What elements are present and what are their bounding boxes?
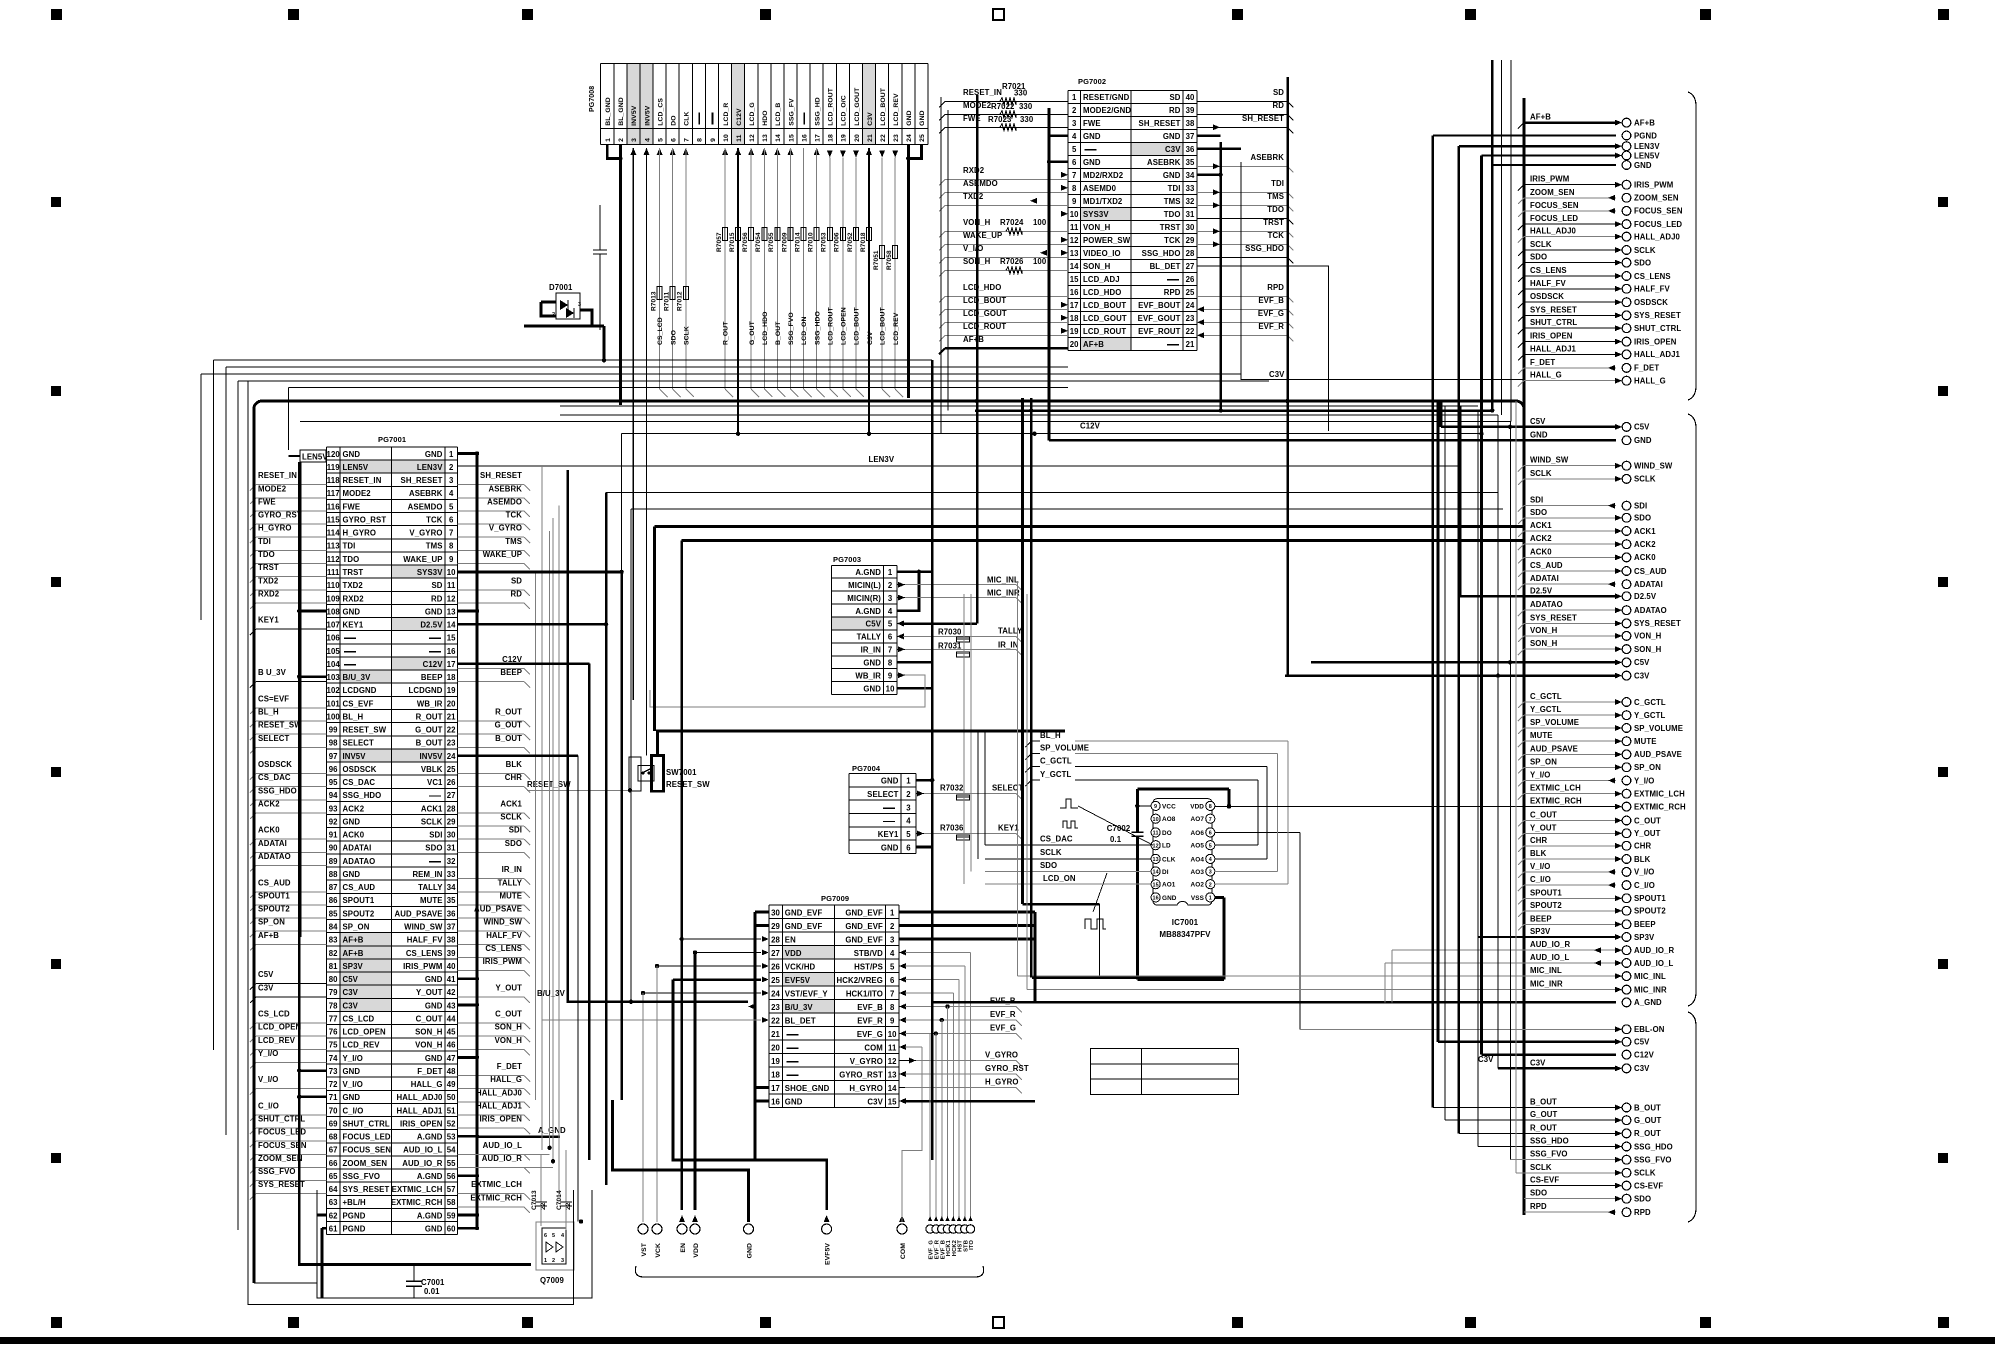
svg-text:RD: RD [431,594,443,603]
svg-text:SPOUT1: SPOUT1 [343,896,375,905]
svg-text:ZOOM_SEN: ZOOM_SEN [258,1154,303,1163]
svg-text:WIND_SW: WIND_SW [1530,456,1569,465]
svg-text:1: 1 [1209,896,1212,902]
svg-text:C3V: C3V [1634,671,1650,680]
svg-text:AO5: AO5 [1191,843,1205,850]
svg-text:R7058: R7058 [886,250,893,270]
svg-text:EVF_G: EVF_G [990,1024,1016,1033]
terminal EVF_B [940,1216,944,1221]
svg-text:FOCUS_LED: FOCUS_LED [1634,220,1682,229]
resistor R7018 [867,228,872,241]
svg-text:TMS: TMS [505,537,522,546]
svg-text:BL_GND: BL_GND [618,97,625,126]
svg-text:35: 35 [1186,158,1195,167]
svg-text:AO2: AO2 [1191,882,1205,889]
svg-text:LCD_ROUT: LCD_ROUT [1083,327,1126,336]
svg-text:AO4: AO4 [1191,856,1205,863]
svg-text:9: 9 [710,138,717,142]
terminal COM [899,1215,905,1222]
wire: PG7002 GND right vertical [1219,142,1222,411]
svg-text:HALF_FV: HALF_FV [1530,279,1566,288]
svg-text:SHOE_GND: SHOE_GND [785,1084,830,1093]
svg-text:9: 9 [888,672,893,681]
svg-text:VON_H: VON_H [415,1041,443,1050]
svg-text:R7054: R7054 [755,232,762,252]
svg-text:TMS: TMS [1267,192,1284,201]
svg-text:16: 16 [1070,288,1079,297]
svg-text:GND: GND [863,659,881,668]
svg-text:51: 51 [447,1106,456,1115]
svg-text:61: 61 [329,1225,338,1234]
svg-text:SP_ON: SP_ON [1634,763,1661,772]
svg-text:SP3V: SP3V [343,962,364,971]
svg-text:13: 13 [1070,249,1079,258]
svg-text:C3V: C3V [867,1098,883,1107]
svg-text:30: 30 [771,909,780,918]
junction dots on buses [930,399,934,403]
svg-text:BL_DET: BL_DET [785,1017,816,1026]
svg-text:54: 54 [447,1146,456,1155]
svg-text:SSG_HDO: SSG_HDO [1634,1142,1673,1151]
svg-text:VDD: VDD [785,949,802,958]
svg-text:TCK: TCK [1164,236,1181,245]
svg-text:6: 6 [1209,831,1212,837]
svg-text:11: 11 [888,1044,897,1053]
svg-text:RXD2: RXD2 [963,166,985,175]
svg-text:115: 115 [327,516,340,525]
svg-text:SP_VOLUME: SP_VOLUME [1530,718,1579,727]
svg-text:ADATAO: ADATAO [258,852,291,861]
svg-text:87: 87 [329,883,338,892]
svg-text:10: 10 [447,568,456,577]
svg-text:VDD: VDD [1190,803,1204,810]
wire: GND thick feeder [1048,108,1051,440]
svg-text:DO: DO [1162,830,1172,837]
svg-text:SON_H: SON_H [415,1028,443,1037]
svg-text:3: 3 [561,1258,564,1264]
svg-text:SCLK: SCLK [421,818,443,827]
svg-text:HALF_FV: HALF_FV [1634,285,1670,294]
transistor Q7009 [542,1228,566,1264]
svg-text:84: 84 [329,923,338,932]
svg-text:53: 53 [447,1133,456,1142]
svg-text:EVF_GOUT: EVF_GOUT [1138,314,1181,323]
svg-text:3: 3 [449,476,454,485]
svg-text:LCD_HDO: LCD_HDO [963,283,1001,292]
svg-text:74: 74 [329,1054,338,1063]
svg-text:PGND: PGND [1634,131,1657,140]
svg-text:8: 8 [1072,184,1077,193]
node C12V [1481,1053,1616,1055]
svg-text:PG7008: PG7008 [589,86,596,112]
svg-text:ACK0: ACK0 [1634,553,1656,562]
svg-text:16: 16 [771,1098,780,1107]
svg-text:SCLK: SCLK [1530,1163,1552,1172]
svg-text:LCD_REV: LCD_REV [893,312,900,345]
svg-text:14: 14 [775,134,782,142]
svg-text:C12V: C12V [736,108,743,126]
svg-text:TMS: TMS [1164,197,1181,206]
svg-text:SCLK: SCLK [1530,240,1552,249]
svg-text:SYS_RESET: SYS_RESET [1530,305,1577,314]
svg-text:LCD_BOUT: LCD_BOUT [1083,301,1126,310]
svg-text:AO6: AO6 [1191,830,1205,837]
svg-text:12: 12 [888,1057,897,1066]
svg-text:B/U_3V: B/U_3V [785,1003,814,1012]
svg-text:CS_LCD: CS_LCD [343,1014,375,1023]
table (blank legend) [1091,1049,1239,1095]
svg-text:MIC_INL: MIC_INL [1634,972,1666,981]
svg-text:RESET_IN: RESET_IN [963,88,1002,97]
svg-text:35: 35 [447,896,456,905]
svg-text:C5V: C5V [1530,417,1546,426]
svg-text:SP_VOLUME: SP_VOLUME [1634,724,1683,733]
node C5V [1438,1041,1616,1043]
svg-text:119: 119 [327,463,340,472]
svg-text:WIND_SW: WIND_SW [484,918,523,927]
svg-text:30: 30 [1186,223,1195,232]
svg-text:HALL_ADJ0: HALL_ADJ0 [1634,232,1681,241]
svg-text:15: 15 [788,134,795,142]
svg-text:V_GYRO: V_GYRO [489,524,522,533]
svg-text:SELECT: SELECT [867,790,898,799]
svg-text:50: 50 [447,1093,456,1102]
svg-text:64: 64 [329,1185,338,1194]
svg-text:HCK1/ITO: HCK1/ITO [846,990,883,999]
svg-text:R7015: R7015 [729,232,736,252]
terminal STB [963,1216,967,1221]
svg-text:R_OUT: R_OUT [723,321,730,345]
svg-text:F_DET: F_DET [417,1067,442,1076]
svg-text:BL_DET: BL_DET [1150,262,1181,271]
wire: PG7002 right flag bus [1286,77,1289,676]
svg-text:HALL_ADJ0: HALL_ADJ0 [1530,227,1577,236]
svg-text:A.GND: A.GND [417,1133,443,1142]
svg-text:2: 2 [888,581,893,590]
svg-text:100: 100 [1033,257,1047,266]
svg-text:LEN3V: LEN3V [417,463,443,472]
svg-text:AO1: AO1 [1162,882,1176,889]
svg-text:C12V: C12V [1634,1050,1655,1059]
svg-text:MICIN(R): MICIN(R) [847,594,881,603]
svg-text:V_I/O: V_I/O [1530,862,1550,871]
svg-text:PG7009: PG7009 [821,894,849,903]
node A_GND [932,1001,1616,1003]
svg-text:C_I/O: C_I/O [343,1106,364,1115]
svg-text:46: 46 [447,1041,456,1050]
svg-text:SPOUT2: SPOUT2 [343,909,375,918]
svg-text:SP3V: SP3V [1634,933,1655,942]
svg-text:7: 7 [449,529,453,538]
svg-text:16: 16 [801,134,808,142]
svg-text:CS_DAC: CS_DAC [1040,835,1073,844]
svg-text:3: 3 [1072,119,1077,128]
svg-text:5: 5 [552,1233,555,1239]
svg-text:V_I/O: V_I/O [963,244,983,253]
svg-text:AUD_IO_L: AUD_IO_L [1530,953,1569,962]
svg-text:49: 49 [447,1080,456,1089]
wire: top-left horizontal bus [214,359,933,361]
svg-text:AF+B: AF+B [343,949,364,958]
svg-text:41: 41 [447,975,456,984]
svg-text:R7055: R7055 [768,232,775,252]
svg-text:SPOUT2: SPOUT2 [1634,907,1666,916]
svg-text:14: 14 [1070,262,1079,271]
node EBL-ON [1300,1028,1616,1030]
svg-text:3: 3 [1209,870,1212,876]
svg-text:44: 44 [447,1014,456,1023]
svg-text:97: 97 [329,752,338,761]
svg-text:R_OUT: R_OUT [495,708,522,717]
svg-text:11: 11 [1070,223,1079,232]
svg-text:96: 96 [329,765,338,774]
waveform clock glyph [1063,821,1078,828]
svg-text:C_GCTL: C_GCTL [1040,756,1072,765]
wire: nested right verticals [1501,60,1503,415]
svg-text:AUD_IO_R: AUD_IO_R [1634,946,1674,955]
svg-text:A_GND: A_GND [1634,998,1662,1007]
svg-text:38: 38 [447,936,456,945]
svg-text:V_GYRO: V_GYRO [850,1057,883,1066]
svg-text:VC1: VC1 [427,778,443,787]
svg-text:SCLK: SCLK [1634,1169,1656,1178]
svg-text:FOCUS_SEN: FOCUS_SEN [343,1146,392,1155]
svg-text:C_I/O: C_I/O [1530,875,1551,884]
svg-text:27: 27 [771,949,780,958]
svg-text:LCDGND: LCDGND [343,686,377,695]
svg-text:VON_H: VON_H [1083,223,1111,232]
svg-text:110: 110 [327,581,340,590]
svg-text:CS_AUD: CS_AUD [343,883,376,892]
svg-text:116: 116 [327,502,340,511]
svg-text:Y_GCTL: Y_GCTL [1530,705,1561,714]
svg-text:SDO: SDO [1040,861,1057,870]
svg-text:V_I/O: V_I/O [1634,868,1654,877]
svg-text:HCK2/VREG: HCK2/VREG [837,976,883,985]
svg-text:C3V: C3V [343,1001,359,1010]
right signal column spine [1523,98,1526,1215]
svg-text:R7010: R7010 [808,232,815,252]
svg-text:58: 58 [447,1198,456,1207]
svg-text:C3V: C3V [1478,1055,1494,1064]
svg-text:91: 91 [329,831,338,840]
svg-text:20: 20 [854,134,861,142]
svg-text:114: 114 [327,529,340,538]
svg-text:TCK: TCK [426,516,443,525]
svg-text:43: 43 [447,1001,456,1010]
svg-text:TCK: TCK [506,511,523,520]
svg-text:28: 28 [1186,249,1195,258]
svg-text:Y_GCTL: Y_GCTL [1040,770,1071,779]
svg-text:12: 12 [749,134,756,142]
svg-text:C7001: C7001 [421,1278,445,1287]
svg-text:9: 9 [1154,804,1157,810]
svg-text:SP_VOLUME: SP_VOLUME [1040,744,1089,753]
svg-text:7: 7 [1072,171,1076,180]
svg-text:DO: DO [671,115,678,125]
svg-text:EVF_B: EVF_B [990,997,1016,1006]
svg-text:C5V: C5V [1634,1038,1650,1047]
svg-text:V_GYRO: V_GYRO [409,529,442,538]
svg-text:LCD_G: LCD_G [749,102,756,126]
svg-text:27: 27 [447,791,456,800]
resistor R7056 [749,228,754,241]
svg-text:32: 32 [1186,197,1195,206]
svg-text:7: 7 [684,138,691,142]
svg-text:4: 4 [906,817,911,826]
svg-text:31: 31 [1186,210,1195,219]
svg-text:11: 11 [1153,831,1159,837]
svg-text:LCD_GOUT: LCD_GOUT [854,87,861,126]
svg-text:HALL_ADJ1: HALL_ADJ1 [476,1102,523,1111]
svg-text:22: 22 [1186,327,1195,336]
svg-text:8: 8 [1209,804,1212,810]
svg-text:ASEBRK: ASEBRK [1250,153,1284,162]
svg-text:2: 2 [890,922,895,931]
svg-text:GND: GND [343,870,361,879]
svg-text:SYS_RESET: SYS_RESET [1634,311,1681,320]
harness brace 3 [1688,1012,1696,1222]
svg-text:WAKE_UP: WAKE_UP [483,550,522,559]
svg-text:2: 2 [906,790,911,799]
terminal VST [638,1224,648,1234]
svg-text:HALL_G: HALL_G [1530,371,1562,380]
resistor R7014 [801,228,806,241]
node C3V [1285,674,1616,676]
PG7009 right wires [899,911,1035,914]
wire: SP3V long feeder [299,462,302,937]
svg-text:113: 113 [327,542,340,551]
svg-text:G_OUT: G_OUT [1530,1110,1557,1119]
svg-text:R7024: R7024 [1000,218,1024,227]
svg-text:12: 12 [447,594,456,603]
svg-text:EVF_G: EVF_G [857,1030,883,1039]
svg-text:27: 27 [1186,262,1195,271]
svg-text:ASEMD0: ASEMD0 [1083,184,1117,193]
svg-text:KEY1: KEY1 [343,621,364,630]
svg-text:17: 17 [447,660,456,669]
svg-text:HALF_FV: HALF_FV [486,931,522,940]
svg-text:103: 103 [327,673,341,682]
svg-text:ACK1: ACK1 [1634,527,1656,536]
svg-text:SD: SD [1273,88,1284,97]
svg-text:TRST: TRST [1160,223,1181,232]
svg-text:R7022: R7022 [991,102,1015,111]
svg-text:17: 17 [815,134,822,142]
svg-text:EVF_BOUT: EVF_BOUT [1138,301,1181,310]
wire: mid long horizontals [606,492,1498,494]
svg-text:Y_GCTL: Y_GCTL [1634,711,1665,720]
svg-text:60: 60 [447,1225,456,1234]
svg-text:LCD_ROUT: LCD_ROUT [828,87,835,126]
svg-text:ACK0: ACK0 [258,826,280,835]
svg-text:GND: GND [343,607,361,616]
wire: main thick bus y=401 [1440,401,1443,427]
wire: thick mid vertical x=932 [931,360,934,1160]
terminal EVF5V [824,1215,830,1222]
wire: PG7002 left verticals [940,97,942,434]
svg-text:LCD_REV: LCD_REV [343,1041,381,1050]
svg-text:AUD_PSAVE: AUD_PSAVE [1530,744,1578,753]
svg-text:C3V: C3V [343,988,359,997]
svg-text:SYS3V: SYS3V [1083,210,1109,219]
svg-text:4: 4 [888,607,893,616]
svg-text:6: 6 [544,1233,547,1239]
svg-text:5: 5 [888,620,893,629]
svg-text:25: 25 [1186,288,1195,297]
terminal VCK [652,1224,662,1234]
svg-text:LCDGND: LCDGND [409,686,443,695]
svg-text:31: 31 [447,844,456,853]
svg-text:POWER_SW: POWER_SW [1083,236,1131,245]
svg-text:26: 26 [1186,275,1195,284]
svg-text:C_OUT: C_OUT [1530,811,1557,820]
svg-text:7: 7 [888,646,892,655]
connector PG7009 [769,894,899,1108]
wire: LEN3V long line [458,465,1459,467]
svg-text:3: 3 [890,936,895,945]
wire: PG7001 GND rail [476,454,479,1229]
svg-text:SDO: SDO [1530,253,1547,262]
svg-text:Y_I/O: Y_I/O [343,1054,363,1063]
svg-text:4: 4 [890,949,895,958]
wire: corridor verticals right of PG7001 [535,572,537,1100]
connector PG7002 [1068,77,1197,350]
svg-text:CS_DAC: CS_DAC [343,778,376,787]
svg-text:IRIS_OPEN: IRIS_OPEN [480,1115,523,1124]
svg-text:CS_LENS: CS_LENS [406,949,443,958]
svg-text:R7053: R7053 [821,232,828,252]
svg-text:Y_OUT: Y_OUT [1634,829,1661,838]
svg-text:BEEP: BEEP [500,668,522,677]
svg-text:AUD_IO_L: AUD_IO_L [483,1141,522,1150]
svg-text:SPOUT1: SPOUT1 [1634,894,1666,903]
svg-text:ADATAO: ADATAO [1530,600,1563,609]
svg-text:22: 22 [771,1017,780,1026]
svg-text:CS_LENS: CS_LENS [1634,272,1671,281]
svg-text:TDO: TDO [343,555,360,564]
svg-text:FOCUS_SEN: FOCUS_SEN [1530,201,1579,210]
svg-text:MODE2/GND: MODE2/GND [1083,106,1131,115]
svg-text:79: 79 [329,988,338,997]
svg-text:16: 16 [447,647,456,656]
svg-text:1: 1 [888,568,893,577]
svg-text:89: 89 [329,857,338,866]
svg-text:H_GYRO: H_GYRO [985,1078,1019,1087]
svg-text:98: 98 [329,739,338,748]
svg-text:RESET_IN: RESET_IN [258,471,297,480]
svg-text:GND: GND [1530,430,1548,439]
svg-text:WIND_SW: WIND_SW [404,923,443,932]
svg-text:SSG_FVO: SSG_FVO [788,312,795,345]
svg-text:R7032: R7032 [940,784,964,793]
svg-text:C3V: C3V [1165,145,1181,154]
svg-text:11: 11 [447,581,456,590]
svg-text:G_OUT: G_OUT [495,721,522,730]
svg-text:VSS: VSS [1191,895,1205,902]
svg-text:37: 37 [447,923,456,932]
svg-text:72: 72 [329,1080,338,1089]
svg-text:HALL_ADJ0: HALL_ADJ0 [397,1093,444,1102]
svg-text:67: 67 [329,1146,338,1155]
resistor R7054 [762,228,767,241]
PG7008 pin wires and arrows [607,144,620,158]
svg-text:LEN5V: LEN5V [302,453,328,462]
svg-text:IRIS_PWM: IRIS_PWM [483,957,522,966]
svg-text:C5V: C5V [258,970,274,979]
svg-text:81: 81 [329,962,338,971]
svg-text:R7057: R7057 [716,232,723,252]
